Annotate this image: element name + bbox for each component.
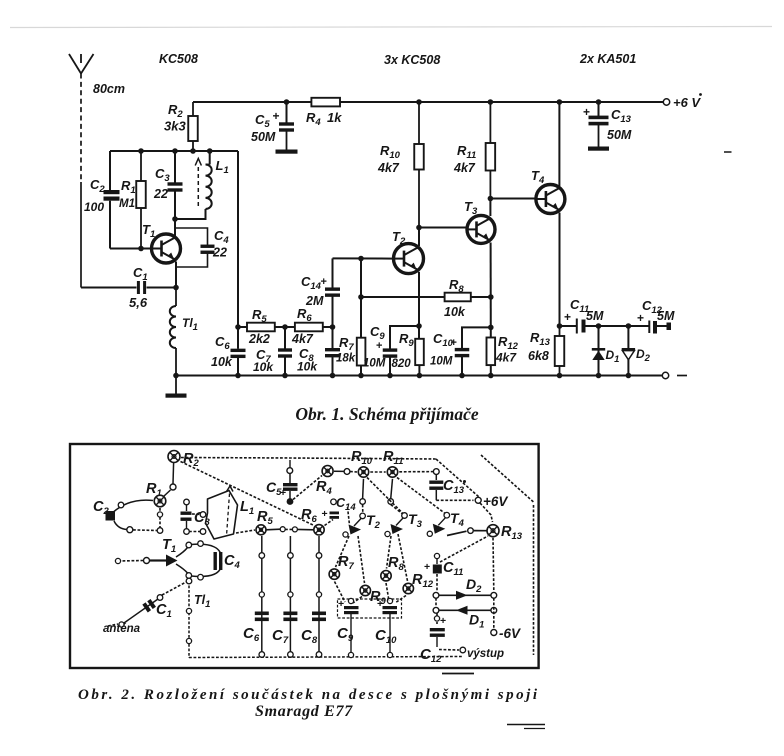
- capacitor C14 fig2: [331, 499, 337, 505]
- svg-text:C11: C11: [443, 560, 463, 578]
- svg-text:C2: C2: [90, 177, 105, 195]
- node R6 right: [330, 324, 336, 330]
- trace D column right: [493, 598, 495, 629]
- svg-text:Tl1: Tl1: [182, 316, 198, 333]
- trace R13 down: [492, 538, 495, 591]
- svg-text:10M: 10M: [363, 358, 386, 370]
- svg-text:R12: R12: [412, 572, 434, 590]
- node D2 top: [626, 323, 632, 329]
- node D1 top: [596, 323, 602, 329]
- trace C1 to T1: [162, 581, 188, 595]
- svg-text:R6: R6: [297, 306, 312, 324]
- node C3 top: [172, 148, 178, 154]
- svg-text:C4: C4: [214, 228, 229, 246]
- trace R6 to C14: [325, 520, 334, 526]
- node T4 collector rail: [557, 99, 563, 105]
- resistor R12: [487, 338, 496, 366]
- svg-text:L1: L1: [240, 499, 254, 517]
- capacitor C4: [201, 245, 215, 248]
- node R2 bottom: [190, 148, 196, 154]
- svg-text:R10: R10: [380, 143, 401, 161]
- resistor R13: [559, 326, 561, 336]
- svg-text:+: +: [376, 340, 382, 352]
- svg-text:C13: C13: [611, 107, 632, 125]
- svg-text:Smaragd E77: Smaragd E77: [255, 703, 353, 720]
- trace T4 to R13: [447, 531, 467, 535]
- capacitor C1: [137, 281, 140, 294]
- pad right of C3: [200, 529, 206, 535]
- pad C3 top: [184, 499, 190, 505]
- transistor T2: [394, 244, 424, 274]
- svg-text:+6V: +6V: [483, 494, 508, 509]
- trace R9 to C9: [353, 597, 362, 604]
- trace right edge: [533, 505, 535, 655]
- PCB board outline: [70, 444, 539, 668]
- resistor R2 pad: [168, 451, 180, 463]
- svg-text:T1: T1: [142, 222, 155, 240]
- trace T2 to R7: [336, 536, 350, 567]
- resistor R8: [445, 293, 471, 302]
- svg-text:6k8: 6k8: [528, 349, 549, 363]
- svg-text:18k: 18k: [336, 353, 356, 365]
- wire C1 to emitter column: [147, 287, 177, 289]
- trace C11 down: [436, 574, 438, 591]
- terminal +6V: [663, 99, 669, 105]
- svg-text:10k: 10k: [211, 355, 233, 369]
- svg-text:+: +: [564, 310, 571, 324]
- svg-text:22: 22: [153, 187, 168, 201]
- wire R5 lead: [238, 326, 247, 328]
- svg-text:5M: 5M: [586, 309, 604, 323]
- svg-text:Obr. 2. Rozložení součástek na: Obr. 2. Rozložení součástek na desce s p…: [78, 687, 538, 703]
- wire C14 to R6 node: [332, 296, 334, 348]
- wire input node line: [110, 150, 238, 152]
- node R1 bottom: [138, 246, 144, 252]
- inductor Tl1 fig2: [188, 581, 190, 658]
- svg-text:+: +: [451, 337, 457, 349]
- node L1 C4 junction: [172, 216, 178, 222]
- svg-text:C3: C3: [155, 166, 170, 184]
- wire T3 base line: [419, 227, 467, 229]
- capacitor C6 fig2: [261, 536, 263, 652]
- svg-text:10k: 10k: [253, 360, 274, 374]
- trace R2 to C5 R10 row: [181, 458, 436, 460]
- trace T1 base left: [118, 560, 143, 563]
- wire C10 bridge: [462, 327, 491, 348]
- svg-text:C8: C8: [301, 627, 318, 646]
- wire T1 emitter down: [175, 262, 177, 288]
- svg-text:5M: 5M: [657, 309, 675, 323]
- wire R10 to T2 collector: [418, 228, 420, 247]
- svg-text:R7: R7: [338, 554, 354, 572]
- resistor R1 pad: [154, 495, 166, 507]
- wire L1 top: [209, 151, 211, 165]
- node R10 top: [416, 99, 422, 105]
- svg-text:T1: T1: [162, 537, 176, 555]
- wire C9 bridge: [390, 326, 419, 349]
- wire C2 column bottom: [109, 201, 111, 249]
- transistor T3: [467, 215, 495, 243]
- wire pad to R1: [164, 490, 171, 497]
- ground main: [175, 376, 177, 394]
- wire node line to C6: [237, 151, 239, 349]
- svg-text:C1: C1: [133, 265, 148, 283]
- resistor R4: [311, 98, 340, 107]
- svg-text:T4: T4: [450, 510, 465, 529]
- node C13 top: [596, 99, 602, 105]
- node C6 rail: [235, 373, 241, 379]
- svg-text:T3: T3: [408, 511, 423, 530]
- svg-text:C5: C5: [255, 112, 270, 130]
- ground C13: [598, 125, 600, 147]
- svg-text:L1: L1: [216, 158, 229, 176]
- svg-text:2k2: 2k2: [248, 332, 270, 346]
- trace D column left: [435, 598, 437, 608]
- svg-text:C12: C12: [420, 646, 442, 665]
- wire R5-R6: [275, 326, 295, 328]
- trace T3 to R12: [398, 534, 408, 581]
- wire C10 bottom: [461, 356, 463, 376]
- pad -6V fig2: [491, 630, 497, 636]
- diode D1: [592, 348, 605, 351]
- trace C3 to L1: [192, 513, 205, 516]
- node R12 rail: [488, 373, 494, 379]
- node C5 top: [284, 99, 290, 105]
- svg-text:C14: C14: [336, 496, 356, 513]
- resistor R7 pad: [329, 569, 339, 579]
- resistor R13 pad: [487, 525, 499, 537]
- node L1 top: [207, 148, 213, 154]
- node R5 left: [235, 324, 241, 330]
- capacitor C4 fig2: [191, 544, 222, 559]
- svg-text:10M: 10M: [430, 356, 453, 368]
- svg-text:C14: C14: [301, 274, 322, 292]
- trace R11 C13: [399, 471, 433, 473]
- svg-text:50M: 50M: [251, 130, 276, 144]
- wire D2 column: [627, 326, 629, 376]
- wire C8 bottom: [332, 357, 334, 376]
- svg-text:-6V: -6V: [499, 626, 521, 641]
- resistor R12 pad: [403, 583, 413, 593]
- trace R10 R11: [370, 471, 385, 473]
- wire D1 column: [598, 326, 600, 376]
- capacitor C9: [383, 348, 398, 351]
- node R9 rail: [417, 373, 423, 379]
- capacitor C7: [278, 348, 292, 351]
- trace T2 to R9: [358, 536, 365, 583]
- trace R7 to C9: [335, 582, 346, 603]
- resistor R11 pad: [387, 467, 397, 477]
- svg-text:50M: 50M: [607, 128, 632, 142]
- wire C6 bottom: [237, 358, 239, 376]
- capacitor C12: [648, 321, 650, 334]
- node C9 R9: [416, 323, 422, 329]
- wire T3 collector: [489, 199, 491, 217]
- capacitor C10: [455, 348, 470, 351]
- wire T3 emitter down: [490, 243, 492, 338]
- wire R2 to pad: [172, 463, 175, 484]
- wire L1 bottom: [175, 209, 206, 219]
- trace right top diag: [481, 455, 534, 502]
- resistor R6: [295, 323, 323, 332]
- svg-text:R2: R2: [168, 102, 183, 120]
- svg-text:C1: C1: [156, 602, 172, 620]
- svg-text:T2: T2: [392, 229, 406, 247]
- node C10 R12: [488, 325, 494, 331]
- wire R7 column: [360, 259, 362, 338]
- transistor T1 fig2: [144, 558, 150, 564]
- svg-text:T4: T4: [531, 168, 545, 186]
- trace pad row: [133, 529, 158, 532]
- node R7 top: [358, 256, 364, 262]
- transistor T4 fig2: [444, 512, 450, 518]
- svg-text:Tl1: Tl1: [194, 593, 210, 610]
- wire C4 top: [175, 228, 208, 245]
- svg-text:80cm: 80cm: [93, 82, 125, 96]
- svg-text:3x KC508: 3x KC508: [384, 53, 440, 67]
- wire C5 top: [286, 102, 288, 123]
- resistor R11: [489, 102, 491, 143]
- capacitor C6: [231, 349, 246, 352]
- trace +6V to R13: [480, 503, 493, 522]
- wire C14 top corner: [332, 258, 334, 287]
- svg-text:D1: D1: [606, 348, 620, 365]
- trace bottom bus: [189, 657, 463, 658]
- wire C11 to D columns: [586, 325, 649, 327]
- wire C2 to pad: [114, 521, 127, 530]
- stray marks bottom right: [507, 724, 545, 726]
- node Tl1 bottom: [173, 373, 179, 379]
- svg-text:R6: R6: [301, 507, 317, 525]
- wire R13 to C11: [560, 325, 577, 327]
- ground C5: [286, 131, 288, 150]
- capacitor C3: [168, 182, 183, 185]
- trace L1 to R5: [236, 530, 255, 533]
- svg-text:+: +: [637, 311, 644, 325]
- wire C7 top: [284, 327, 286, 349]
- diode D2: [622, 348, 635, 351]
- transistor T4: [536, 185, 565, 214]
- svg-text:22: 22: [212, 246, 227, 260]
- svg-text:R10: R10: [351, 449, 373, 467]
- trace T3 to R8: [387, 536, 392, 569]
- svg-text:R11: R11: [457, 143, 476, 161]
- wire antenna to C1: [81, 287, 137, 289]
- svg-text:820: 820: [392, 358, 412, 370]
- trace R1 down: [159, 508, 161, 528]
- wire R8 right: [471, 296, 491, 298]
- wire C2 column top: [109, 151, 111, 190]
- node T1 emitter / C1: [173, 285, 179, 291]
- resistor R1: [140, 151, 142, 181]
- capacitor C1 fig2: [124, 599, 158, 623]
- svg-text:M1: M1: [119, 198, 135, 210]
- trace C11 to R13: [440, 536, 488, 562]
- svg-text:C6: C6: [215, 334, 230, 352]
- scan streak: [10, 27, 772, 28]
- resistor R2: [192, 102, 194, 116]
- resistor R9 pad: [360, 585, 370, 595]
- node C7 rail: [282, 373, 288, 379]
- transistor T3 fig2: [402, 513, 408, 519]
- svg-text:C6: C6: [243, 625, 260, 644]
- node R7 R8: [358, 294, 364, 300]
- capacitor C3 fig2: [181, 512, 192, 515]
- svg-text:1k: 1k: [327, 110, 342, 125]
- svg-text:4k7: 4k7: [453, 161, 476, 175]
- wire C9 bottom: [389, 357, 391, 376]
- resistor R7: [357, 338, 366, 366]
- wire R7 bottom: [360, 366, 362, 376]
- resistor R6 pad: [314, 525, 324, 535]
- svg-text:100: 100: [84, 200, 104, 214]
- svg-text:anténa: anténa: [103, 623, 141, 635]
- trace R11 diag T4: [397, 478, 445, 514]
- svg-text:2M: 2M: [305, 294, 324, 308]
- svg-text:+: +: [424, 561, 430, 573]
- resistor R9: [415, 339, 424, 365]
- node R8 right: [488, 294, 494, 300]
- svg-text:10k: 10k: [297, 360, 318, 374]
- svg-text:C2: C2: [93, 499, 109, 517]
- wire C12 output: [657, 325, 669, 327]
- pad C3 bottom: [186, 521, 188, 529]
- svg-text:+: +: [273, 109, 280, 123]
- node R13 rail: [557, 373, 563, 379]
- node R11 top: [488, 99, 494, 105]
- capacitor C5: [279, 122, 294, 125]
- resistor R5: [247, 323, 275, 332]
- svg-text:R4: R4: [306, 110, 321, 128]
- inductor L1 fig2: [206, 491, 238, 540]
- node C8 rail: [330, 373, 336, 379]
- capacitor C2 fig2: [106, 511, 116, 521]
- svg-text:KC508: KC508: [159, 52, 198, 66]
- wire T4 base line: [490, 198, 536, 200]
- capacitor C13: [589, 116, 609, 120]
- capacitor C7 fig2: [289, 536, 291, 652]
- trace C9 C10 box: [338, 599, 402, 618]
- capacitor C8: [325, 348, 340, 351]
- node R13 top: [557, 323, 563, 329]
- svg-text:+6 V: +6 V: [673, 95, 701, 110]
- capacitor C8 fig2: [318, 536, 320, 652]
- node C9 rail: [387, 373, 393, 379]
- trace C13 to +6V pad: [436, 499, 473, 501]
- node R7 rail: [358, 373, 364, 379]
- svg-text:D2: D2: [636, 347, 651, 364]
- wire top rail: [193, 101, 311, 103]
- capacitor C11: [576, 319, 578, 334]
- svg-text:+: +: [322, 508, 328, 520]
- wire R4 to pad: [334, 470, 344, 472]
- svg-text:T2: T2: [366, 512, 381, 531]
- svg-text:R4: R4: [316, 479, 332, 497]
- svg-text:+: +: [583, 105, 590, 119]
- trace R10 diag T3: [367, 478, 403, 514]
- antenna: [69, 54, 81, 74]
- wire R12 bottom: [490, 365, 492, 375]
- svg-text:R7: R7: [339, 335, 354, 353]
- svg-text:R13: R13: [501, 524, 523, 542]
- trace C5 to R4: [293, 476, 322, 500]
- capacitor C12 fig2: [436, 613, 438, 624]
- node R5 R6: [282, 324, 288, 330]
- resistor R8 pad: [381, 571, 391, 581]
- svg-text:výstup: výstup: [467, 648, 504, 660]
- wire R9 bottom: [418, 365, 420, 375]
- wire T4 emitter down: [559, 213, 561, 326]
- transistor T2 fig2: [360, 513, 366, 519]
- svg-text:4k7: 4k7: [377, 161, 400, 175]
- svg-text:C10: C10: [375, 627, 397, 646]
- svg-text:4k7: 4k7: [495, 351, 517, 365]
- inductor Tl1: [175, 288, 177, 307]
- wire C7 bottom: [284, 357, 286, 376]
- svg-text:R1: R1: [121, 178, 136, 196]
- trace C14 to T2: [348, 507, 350, 525]
- trace diag to +6V: [436, 459, 479, 497]
- svg-text:+: +: [440, 615, 446, 627]
- wire R6 lead: [323, 326, 333, 328]
- svg-text:+: +: [377, 598, 383, 610]
- svg-text:10k: 10k: [444, 305, 466, 319]
- wire R8 left: [361, 296, 445, 298]
- svg-text:+: +: [280, 487, 286, 499]
- svg-text:T3: T3: [464, 199, 478, 217]
- terminal output ground: [662, 372, 668, 378]
- resistor R5 pad: [256, 525, 266, 535]
- node C10 rail: [459, 373, 465, 379]
- diode D1 fig2: [433, 607, 439, 613]
- svg-text:Obr. 1. Schéma přijímače: Obr. 1. Schéma přijímače: [295, 404, 478, 424]
- svg-text:R12: R12: [498, 334, 519, 352]
- svg-text:D1: D1: [469, 612, 484, 631]
- capacitor C2: [104, 190, 120, 194]
- trace R5 to R6: [266, 528, 280, 531]
- wire T4 collector: [558, 102, 560, 186]
- node R11 T4base: [488, 196, 494, 202]
- svg-text:D2: D2: [466, 576, 482, 595]
- trace R10 down: [362, 479, 365, 499]
- diode D2 fig2: [433, 592, 439, 598]
- wire C2 to R1: [114, 500, 153, 511]
- svg-text:R13: R13: [530, 330, 551, 348]
- inductor L1: [206, 165, 212, 210]
- capacitor C14: [325, 287, 340, 290]
- svg-text:2x KA501: 2x KA501: [579, 52, 636, 66]
- node D1 rail: [596, 373, 602, 379]
- wire T2 base line: [333, 257, 394, 259]
- node R1 top: [138, 148, 144, 154]
- pad +6V fig2: [475, 497, 481, 503]
- svg-text:R9: R9: [399, 331, 414, 349]
- node R10 T3base: [416, 225, 422, 231]
- svg-text:R5: R5: [257, 509, 273, 527]
- wire T2 emitter down: [418, 272, 420, 339]
- resistor R10: [418, 102, 420, 144]
- capacitor C5 fig2: [289, 460, 291, 468]
- node D2 rail: [626, 373, 632, 379]
- wire C13 top: [598, 102, 600, 116]
- wire C3 bottom to T1 collector: [174, 191, 176, 237]
- svg-text:+: +: [321, 276, 327, 288]
- svg-text:5,6: 5,6: [129, 295, 148, 310]
- trace antena tail: [108, 624, 118, 626]
- svg-text:C7: C7: [272, 627, 289, 646]
- wire C3 top: [174, 151, 176, 183]
- trace R2 diag to R6: [181, 462, 314, 526]
